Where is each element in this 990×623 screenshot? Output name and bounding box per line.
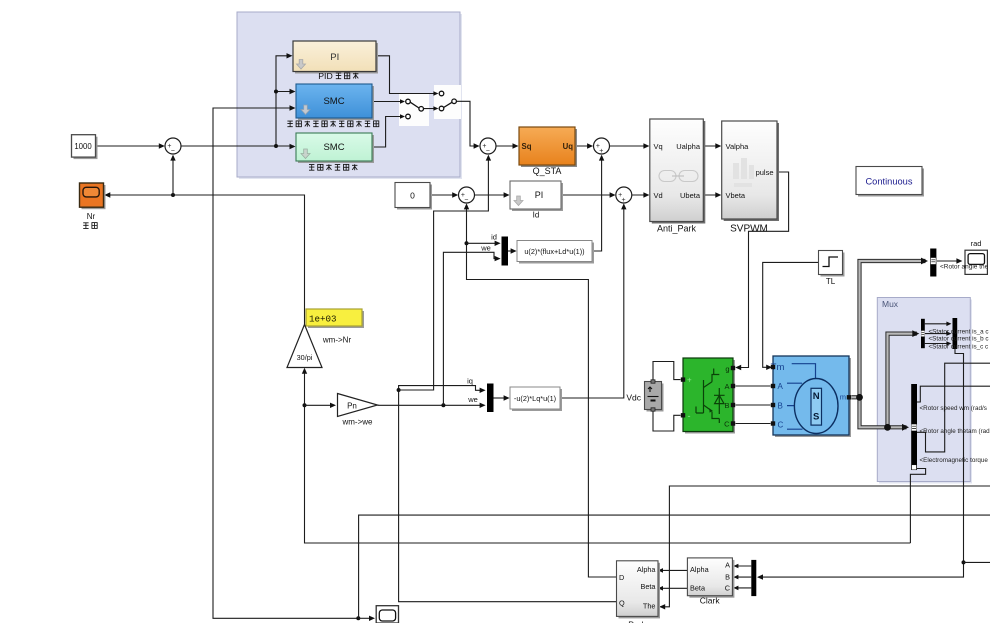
svg-text:m: m bbox=[840, 393, 846, 402]
svg-text:S: S bbox=[813, 412, 819, 423]
svg-text:pulse: pulse bbox=[756, 168, 774, 177]
svg-text:-: - bbox=[688, 411, 691, 421]
svg-text:wm->Nr: wm->Nr bbox=[322, 336, 352, 345]
svg-text:Mux: Mux bbox=[882, 299, 899, 309]
svg-text:30/pi: 30/pi bbox=[297, 353, 313, 362]
svg-text:g: g bbox=[725, 365, 729, 374]
svg-text:id: id bbox=[491, 233, 497, 242]
svg-text:TL: TL bbox=[826, 277, 836, 286]
svg-text:iq: iq bbox=[467, 377, 473, 386]
svg-text:Park: Park bbox=[628, 620, 646, 623]
svg-text:+: + bbox=[599, 148, 603, 155]
svg-text:Beta: Beta bbox=[640, 582, 656, 591]
svg-text:Alpha: Alpha bbox=[637, 565, 657, 574]
svg-text:<Rotor angle the: <Rotor angle the bbox=[940, 264, 989, 271]
svg-text:Vbeta: Vbeta bbox=[726, 191, 746, 200]
svg-text:SMC: SMC bbox=[323, 142, 344, 153]
svg-text:we: we bbox=[480, 244, 491, 253]
svg-text:Alpha: Alpha bbox=[690, 565, 710, 574]
svg-text:wm->we: wm->we bbox=[341, 418, 373, 427]
svg-text:+: + bbox=[687, 376, 692, 385]
svg-text:−: − bbox=[486, 148, 490, 155]
svg-text:−: − bbox=[171, 148, 175, 155]
svg-text:Ubeta: Ubeta bbox=[680, 191, 701, 200]
svg-text:<Stator current is_a c: <Stator current is_a c bbox=[929, 328, 989, 335]
svg-text:Ualpha: Ualpha bbox=[676, 142, 701, 151]
svg-text:<Stator current is_c c: <Stator current is_c c bbox=[929, 344, 989, 351]
svg-text:C: C bbox=[724, 420, 730, 429]
svg-text:B: B bbox=[725, 572, 730, 581]
svg-text:B: B bbox=[724, 401, 729, 410]
svg-text:1e+03: 1e+03 bbox=[309, 314, 337, 325]
svg-text:A: A bbox=[778, 382, 784, 391]
svg-text:Vdc: Vdc bbox=[626, 393, 641, 403]
svg-text:PI: PI bbox=[535, 190, 544, 200]
svg-text:C: C bbox=[778, 421, 784, 430]
svg-text:N: N bbox=[813, 391, 820, 402]
svg-text:The: The bbox=[643, 602, 656, 611]
svg-text:PID: PID bbox=[318, 71, 332, 81]
svg-text:SVPWM: SVPWM bbox=[730, 224, 768, 235]
svg-text:<Rotor angle thetam (rad: <Rotor angle thetam (rad bbox=[920, 428, 990, 435]
svg-text:Sq: Sq bbox=[522, 142, 532, 151]
svg-text:Uq: Uq bbox=[563, 142, 574, 151]
svg-text:Id: Id bbox=[533, 211, 540, 220]
svg-text:Clark: Clark bbox=[700, 596, 721, 606]
svg-text:B: B bbox=[778, 402, 783, 411]
svg-text:<Stator current is_b c: <Stator current is_b c bbox=[929, 335, 989, 342]
svg-text:Pn: Pn bbox=[347, 402, 357, 411]
svg-text:u(2)*(flux+Ld*u(1)): u(2)*(flux+Ld*u(1)) bbox=[524, 247, 584, 256]
svg-text:Nr: Nr bbox=[87, 212, 96, 221]
svg-text:we: we bbox=[467, 395, 478, 404]
svg-text:Anti_Park: Anti_Park bbox=[657, 224, 697, 234]
svg-text:<Rotor speed wm (rad/s: <Rotor speed wm (rad/s bbox=[920, 405, 987, 412]
svg-text:Vq: Vq bbox=[654, 142, 663, 151]
svg-text:C: C bbox=[725, 584, 730, 593]
svg-text:Valpha: Valpha bbox=[726, 142, 750, 151]
svg-text:0: 0 bbox=[410, 191, 415, 201]
svg-text:A: A bbox=[725, 561, 730, 570]
svg-text:Beta: Beta bbox=[690, 584, 706, 593]
svg-text:SMC: SMC bbox=[323, 96, 344, 107]
svg-text:Q_STA: Q_STA bbox=[533, 166, 562, 176]
svg-text:-u(2)*Lq*u(1): -u(2)*Lq*u(1) bbox=[514, 394, 556, 403]
svg-text:PI: PI bbox=[330, 52, 339, 63]
svg-text:+: + bbox=[622, 197, 626, 204]
svg-text:A: A bbox=[724, 382, 729, 391]
svg-text:1000: 1000 bbox=[74, 142, 92, 151]
svg-text:Q: Q bbox=[619, 599, 625, 608]
svg-text:Continuous: Continuous bbox=[865, 177, 912, 187]
svg-text:rad: rad bbox=[971, 239, 982, 248]
svg-text:D: D bbox=[619, 573, 624, 582]
svg-text:Vd: Vd bbox=[654, 191, 663, 200]
svg-text:<Electromagnetic torque: <Electromagnetic torque bbox=[920, 457, 989, 464]
svg-text:−: − bbox=[464, 197, 468, 204]
